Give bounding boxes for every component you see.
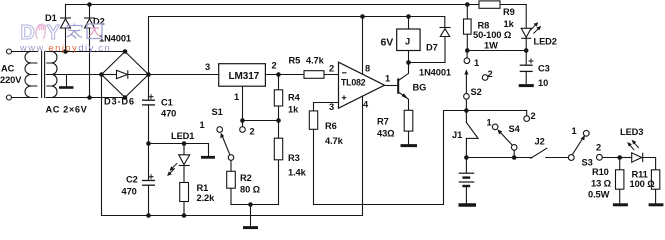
svg-text:43Ω: 43Ω [377, 129, 395, 139]
svg-text:1: 1 [385, 74, 390, 84]
svg-text:C3: C3 [538, 64, 550, 74]
svg-text:R10: R10 [592, 167, 609, 177]
svg-text:1k: 1k [504, 19, 515, 29]
svg-text:Y: Y [47, 22, 61, 44]
svg-text:AC 2×6V: AC 2×6V [46, 105, 88, 115]
svg-text:R3: R3 [288, 153, 300, 163]
svg-text:2: 2 [596, 143, 601, 153]
svg-text:220V: 220V [0, 75, 22, 85]
svg-text:3: 3 [205, 62, 210, 72]
svg-text:J: J [405, 37, 410, 47]
svg-text:10: 10 [538, 78, 548, 88]
svg-text:TL082: TL082 [341, 77, 366, 87]
svg-text:13 Ω: 13 Ω [591, 179, 612, 189]
svg-text:R7: R7 [377, 117, 389, 127]
svg-text:LED2: LED2 [534, 37, 557, 47]
svg-text:C1: C1 [161, 98, 173, 108]
svg-text:www.enjoydiy.cn: www.enjoydiy.cn [19, 42, 111, 53]
svg-text:1k: 1k [288, 105, 299, 115]
svg-text:LED1: LED1 [171, 131, 194, 141]
svg-text:C2: C2 [126, 175, 138, 185]
svg-text:S2: S2 [471, 87, 482, 97]
svg-text:470: 470 [161, 109, 176, 119]
svg-text:S4: S4 [509, 124, 521, 134]
svg-text:1: 1 [200, 120, 205, 130]
svg-text:BG: BG [413, 83, 427, 93]
svg-text:D7: D7 [426, 43, 438, 53]
svg-text:R1: R1 [197, 183, 209, 193]
svg-text:R6: R6 [325, 121, 337, 131]
svg-text:D3-D6: D3-D6 [104, 97, 135, 107]
svg-text:4.7k: 4.7k [325, 136, 344, 146]
svg-text:R2: R2 [240, 173, 252, 183]
svg-text:100 Ω: 100 Ω [630, 179, 656, 189]
svg-text:R9: R9 [503, 7, 515, 17]
svg-text:R5: R5 [289, 56, 301, 66]
svg-text:1.4k: 1.4k [288, 168, 307, 178]
svg-text:1: 1 [234, 92, 239, 102]
svg-text:2: 2 [250, 127, 255, 137]
svg-text:S1: S1 [212, 107, 223, 117]
svg-text:470: 470 [122, 187, 137, 197]
svg-text:2: 2 [488, 69, 493, 79]
svg-text:2: 2 [329, 64, 334, 74]
svg-text:2.2k: 2.2k [197, 193, 216, 203]
svg-text:AC: AC [1, 64, 15, 74]
svg-text:8: 8 [365, 64, 370, 74]
svg-text:D2: D2 [93, 17, 105, 27]
svg-text:1: 1 [572, 126, 577, 136]
svg-text:0.5W: 0.5W [588, 190, 610, 200]
svg-text:R4: R4 [288, 93, 301, 103]
svg-text:2: 2 [531, 111, 536, 121]
svg-text:6V: 6V [381, 37, 394, 49]
svg-text:1: 1 [474, 58, 479, 68]
svg-text:LED3: LED3 [620, 127, 643, 137]
svg-text:S3: S3 [582, 158, 593, 168]
svg-text:1: 1 [487, 118, 492, 128]
svg-text:1N4001: 1N4001 [419, 68, 451, 78]
svg-text:J2: J2 [535, 137, 545, 147]
svg-text:R8: R8 [478, 21, 490, 31]
svg-text:1W: 1W [484, 41, 498, 51]
svg-text:80 Ω: 80 Ω [240, 185, 261, 195]
svg-text:2: 2 [272, 61, 277, 71]
svg-text:LM317: LM317 [229, 71, 260, 82]
svg-text:J1: J1 [452, 130, 462, 140]
svg-text:3: 3 [329, 102, 334, 112]
svg-text:4.7k: 4.7k [306, 56, 325, 66]
svg-text:D: D [21, 22, 35, 44]
svg-text:50-100 Ω: 50-100 Ω [473, 30, 512, 40]
svg-text:R11: R11 [632, 170, 648, 180]
